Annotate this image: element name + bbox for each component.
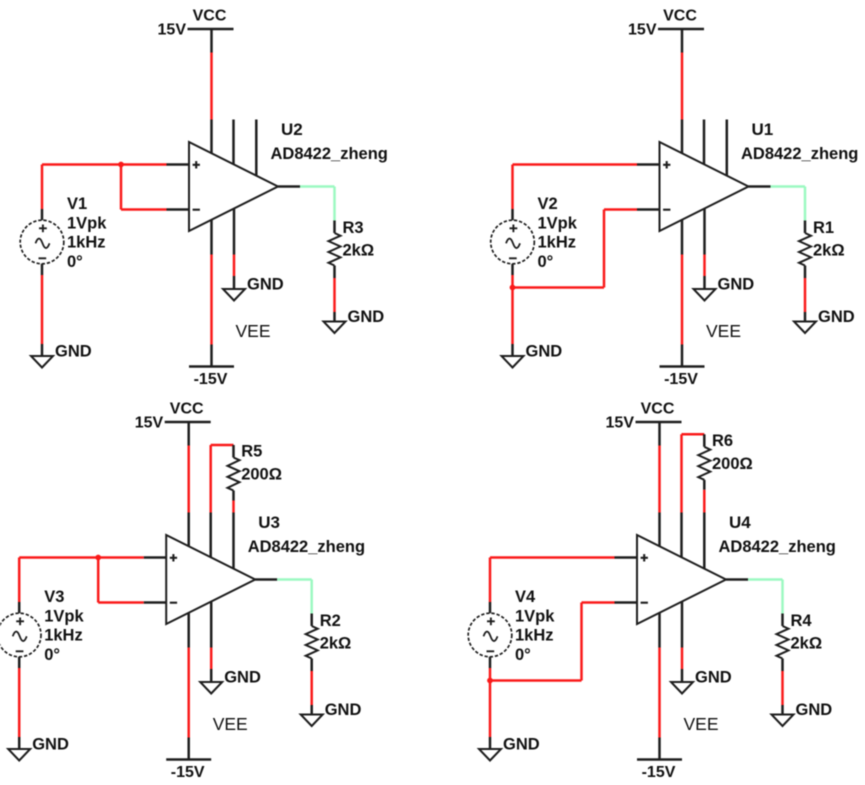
svg-text:2kΩ: 2kΩ [791,635,823,653]
svg-text:R3: R3 [343,219,364,237]
svg-text:VCC: VCC [170,401,204,418]
svg-text:15V: 15V [135,415,164,432]
svg-text:GND: GND [348,308,385,326]
svg-text:VEE: VEE [213,714,248,734]
svg-text:VCC: VCC [193,8,227,25]
svg-text:-15V: -15V [642,764,676,781]
svg-text:GND: GND [526,343,563,361]
svg-text:15V: 15V [158,22,187,39]
svg-text:V2: V2 [538,195,558,213]
svg-text:U1: U1 [752,120,774,139]
svg-text:200Ω: 200Ω [712,455,753,473]
svg-text:15V: 15V [606,415,635,432]
svg-text:1kHz: 1kHz [67,234,106,252]
svg-text:R4: R4 [791,612,813,630]
svg-text:VCC: VCC [641,401,675,418]
svg-text:1kHz: 1kHz [515,627,554,645]
svg-text:AD8422_zheng: AD8422_zheng [271,145,388,163]
svg-text:0°: 0° [44,646,60,664]
svg-text:R1: R1 [813,219,834,237]
svg-text:0°: 0° [538,253,554,271]
svg-text:1kHz: 1kHz [44,627,83,645]
svg-text:0°: 0° [515,646,531,664]
svg-text:AD8422_zheng: AD8422_zheng [719,538,836,556]
svg-text:R6: R6 [712,432,733,450]
svg-text:V3: V3 [44,588,64,606]
svg-text:GND: GND [695,669,732,687]
svg-text:AD8422_zheng: AD8422_zheng [741,145,858,163]
svg-text:1Vpk: 1Vpk [67,214,107,232]
svg-text:AD8422_zheng: AD8422_zheng [248,538,365,556]
svg-text:VEE: VEE [236,321,271,341]
svg-text:200Ω: 200Ω [241,466,282,484]
svg-text:R2: R2 [320,612,341,630]
svg-text:GND: GND [325,701,362,719]
svg-text:2kΩ: 2kΩ [813,242,845,260]
svg-text:VCC: VCC [663,8,697,25]
svg-text:GND: GND [224,669,261,687]
svg-text:VEE: VEE [706,321,741,341]
svg-text:GND: GND [32,736,69,754]
svg-text:-15V: -15V [171,764,205,781]
svg-text:U2: U2 [281,120,303,139]
svg-text:GND: GND [55,343,92,361]
svg-text:V4: V4 [515,588,536,606]
svg-text:GND: GND [503,736,540,754]
svg-text:0°: 0° [67,253,83,271]
svg-text:15V: 15V [628,22,657,39]
svg-text:V1: V1 [67,195,87,213]
svg-text:-15V: -15V [664,371,698,388]
svg-text:2kΩ: 2kΩ [320,635,352,653]
svg-text:U4: U4 [729,513,751,532]
svg-text:1Vpk: 1Vpk [515,607,555,625]
svg-text:U3: U3 [258,513,280,532]
svg-text:2kΩ: 2kΩ [343,242,375,260]
svg-text:GND: GND [796,701,833,719]
svg-text:1Vpk: 1Vpk [538,214,578,232]
svg-text:GND: GND [247,276,284,294]
svg-text:GND: GND [818,308,855,326]
svg-text:R5: R5 [241,443,262,461]
svg-text:1Vpk: 1Vpk [44,607,84,625]
svg-text:GND: GND [718,276,755,294]
svg-text:-15V: -15V [194,371,228,388]
svg-text:VEE: VEE [684,714,719,734]
svg-text:1kHz: 1kHz [538,234,577,252]
